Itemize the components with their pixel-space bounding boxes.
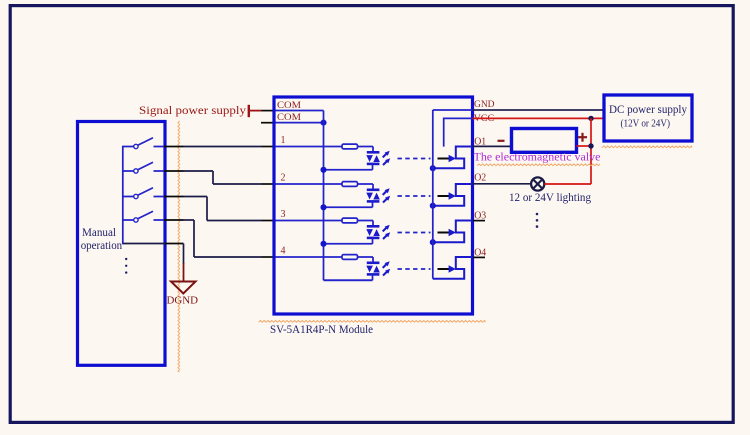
switch S2 — [123, 162, 164, 173]
junction emitter bus 2 — [430, 203, 436, 209]
ellipsis dots — [125, 258, 127, 274]
svg-text:4: 4 — [281, 246, 286, 257]
svg-text:COM: COM — [277, 113, 301, 123]
svg-text:(12V or 24V): (12V or 24V) — [621, 119, 671, 130]
resistor R1 — [342, 144, 358, 149]
orange marker line — [178, 121, 180, 372]
wire switch S1 to module pin 1 — [164, 146, 275, 148]
resistor R3 — [342, 218, 358, 223]
svg-text:1: 1 — [281, 135, 286, 146]
svg-text:The electromagnetic valve: The electromagnetic valve — [474, 149, 601, 163]
wire resistor R2 to LED D2 — [358, 184, 374, 189]
label The electromagnetic valve — [474, 149, 601, 165]
phototransistor Q2 body — [433, 184, 472, 206]
ellipsis dots outputs — [536, 213, 539, 228]
svg-text:COM: COM — [277, 101, 301, 111]
optocoupler LED D2 — [366, 188, 390, 202]
junction COM bus — [320, 120, 326, 126]
wire switch S4 to module pin 4 — [164, 220, 275, 257]
terminal tick — [248, 105, 250, 117]
DC power supply PS1 — [604, 95, 692, 141]
wire LED D3 to return bus — [324, 238, 373, 244]
wire COM2 stub — [261, 122, 275, 124]
svg-text:12 or 24V lighting: 12 or 24V lighting — [509, 192, 591, 204]
module U1 SV-5A1R4P-N — [274, 97, 473, 314]
svg-text:Manual: Manual — [82, 227, 116, 239]
phototransistor Q2 base arrow — [438, 192, 456, 200]
ground DGND — [171, 263, 196, 294]
phototransistor Q4 body — [433, 257, 472, 279]
junction LED return 1 — [320, 167, 326, 173]
wire GND to DC power supply — [473, 109, 605, 111]
manual operation box — [78, 122, 166, 366]
wire VCC internal stub — [444, 118, 472, 146]
polarity label minus — [498, 140, 505, 142]
svg-text:3: 3 — [281, 209, 286, 220]
wire switch S3 to module pin 3 — [164, 197, 275, 221]
svg-text:operation: operation — [81, 240, 123, 252]
wire switch common to DGND — [123, 244, 184, 265]
electromagnetic valve V1 — [512, 129, 577, 153]
optical link channel 1 — [398, 158, 431, 160]
phototransistor Q4 base arrow — [438, 265, 456, 273]
junction LED return 3 — [320, 241, 326, 247]
wire LED D4 to return bus — [324, 274, 373, 280]
polarity label plus — [578, 133, 587, 142]
wire resistor R4 to LED D4 — [358, 257, 374, 262]
switch S1 — [123, 138, 164, 149]
wire VCC to DC power supply — [473, 117, 605, 119]
optical link channel 3 — [398, 232, 431, 234]
underline squiggle DC power supply — [602, 146, 692, 148]
wire LED return bus — [324, 111, 373, 281]
junction LED return 2 — [320, 204, 326, 210]
wire COM2 internal — [276, 122, 324, 124]
wire emitter bus to GND — [432, 110, 434, 279]
junction emitter bus 3 — [430, 239, 436, 245]
wire pin 2 to resistor R2 — [276, 183, 343, 185]
wire pin 1 to resistor R1 — [276, 146, 343, 148]
wire resistor R3 to LED D3 — [358, 221, 374, 226]
label SV-5A1R4P-N Module — [259, 320, 486, 335]
phototransistor Q3 base arrow — [438, 229, 456, 237]
optocoupler LED D1 — [366, 151, 390, 165]
resistor R4 — [342, 255, 358, 260]
svg-text:DGND: DGND — [167, 296, 199, 307]
wire pin 4 to resistor R4 — [276, 256, 343, 258]
wire switch common bus — [122, 146, 124, 245]
phototransistor Q3 body — [433, 221, 472, 243]
wire COM1 internal — [276, 110, 324, 112]
svg-text:SV-5A1R4P-N Module: SV-5A1R4P-N Module — [270, 322, 373, 336]
svg-text:2: 2 — [281, 173, 286, 184]
wire LED D1 to return bus — [324, 164, 373, 170]
wire switch S2 to module pin 2 — [164, 171, 275, 184]
phototransistor Q1 base arrow — [438, 155, 456, 163]
junction valve plus — [588, 143, 593, 148]
svg-text:GND: GND — [474, 100, 495, 110]
label Manual operation — [81, 227, 123, 252]
optocoupler LED D4 — [366, 261, 390, 275]
switch S3 — [123, 188, 164, 199]
wire O4 stub — [473, 256, 485, 258]
wire LED D2 to return bus — [324, 201, 373, 207]
switch S4 — [123, 211, 164, 222]
wire Signal power supply to COM — [249, 110, 275, 112]
wire GND internal — [433, 109, 472, 111]
resistor R2 — [342, 182, 358, 187]
svg-text:O2: O2 — [474, 173, 486, 184]
junction VCC rail — [588, 116, 593, 121]
wire O2 to lamp — [473, 183, 532, 185]
phototransistor Q1 body — [433, 147, 472, 169]
junction emitter bus 1 — [430, 165, 436, 171]
wire O1 to valve — [473, 145, 512, 147]
optical link channel 4 — [398, 268, 431, 270]
wire pin 3 to resistor R3 — [276, 220, 343, 222]
lamp L1 — [531, 177, 544, 190]
optical link channel 2 — [398, 195, 431, 197]
wire resistor R1 to LED D1 — [358, 147, 374, 152]
wire lamp to power rail — [544, 183, 591, 185]
power rail red vertical — [590, 118, 592, 184]
svg-text:DC power supply: DC power supply — [609, 104, 687, 116]
svg-text:Signal power supply: Signal power supply — [139, 103, 246, 117]
wire O3 stub — [473, 220, 485, 222]
wire valve to power rail — [577, 145, 592, 147]
optocoupler LED D3 — [366, 225, 390, 239]
